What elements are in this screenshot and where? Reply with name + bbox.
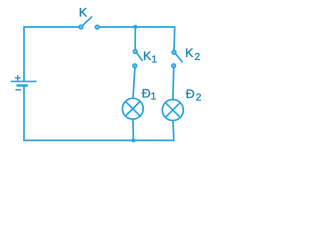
- svg-text:Đ: Đ: [142, 87, 151, 101]
- svg-text:K: K: [79, 5, 88, 19]
- svg-text:Đ: Đ: [186, 87, 195, 101]
- svg-text:2: 2: [195, 52, 201, 63]
- svg-text:2: 2: [196, 93, 202, 104]
- svg-text:1: 1: [151, 92, 157, 103]
- svg-text:K: K: [185, 46, 194, 60]
- svg-text:1: 1: [152, 54, 158, 65]
